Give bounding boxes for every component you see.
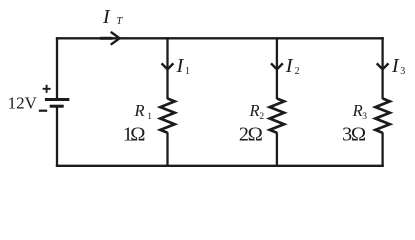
svg-text:1: 1 [147,112,152,122]
label R1 [134,101,153,122]
current arrow I3 head [377,63,389,69]
resistor R1 zigzag [160,99,174,133]
wire branch 1 upper (top bus down to R1) [166,37,168,99]
svg-text:R: R [249,101,260,120]
svg-text:I: I [391,55,400,77]
battery V1 negative plate (short) [50,105,64,108]
svg-text:12V: 12V [8,94,38,113]
wire branch 3 lower (R3 down to bottom-right corner) [381,132,383,167]
resistor R2 zigzag [270,99,284,133]
wire branch 3 right side upper (top-right corner down to R3) [381,37,383,99]
svg-text:T: T [116,16,123,27]
battery minus sign [39,110,47,112]
svg-text:R: R [134,101,145,120]
label I1 [176,55,191,77]
svg-text:Ω: Ω [351,123,366,145]
current arrow I1 head [162,63,174,69]
wire top horizontal bus [56,37,384,39]
svg-text:2: 2 [295,66,300,77]
svg-text:I: I [176,55,185,77]
svg-text:2: 2 [259,112,264,122]
label R2 [249,101,265,122]
battery V1 positive plate (long) [45,98,70,101]
svg-text:R: R [352,101,363,120]
current arrow I2 head [271,63,283,69]
svg-text:I: I [285,55,294,77]
wire branch 1 lower (R1 down to bottom bus) [166,132,168,167]
svg-text:3: 3 [362,112,367,122]
svg-text:3: 3 [400,66,405,77]
wire left side lower (battery - plate down to bottom-left corner) [56,108,58,167]
label I2 [285,55,300,77]
svg-text:Ω: Ω [248,123,263,145]
resistor R3 zigzag [375,99,389,133]
wire branch 2 upper (top bus down to R2) [276,37,278,99]
wire branch 2 lower (R2 down to bottom bus) [276,132,278,167]
svg-text:I: I [102,6,111,28]
label R3 [352,101,368,122]
wire bottom horizontal bus [56,165,384,167]
wire left side upper (top-left corner down to battery + plate) [56,37,58,98]
label I3 [391,55,405,77]
svg-text:1: 1 [185,66,190,77]
label IT [102,6,124,28]
svg-text:Ω: Ω [130,123,145,145]
battery plus sign [43,85,51,93]
current arrow IT on top wire [100,32,120,45]
